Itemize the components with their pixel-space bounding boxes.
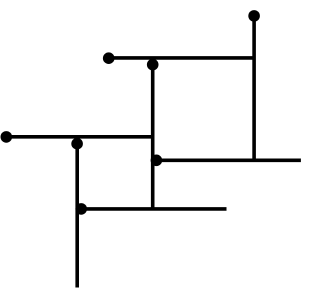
node D4 (dot at left end of H2) — [1, 131, 13, 143]
node D5 (dot on V3 below H2) — [71, 138, 83, 150]
node D3 (dot on V2 below H1) — [147, 59, 159, 71]
wire V2 (middle vertical from H1 down to H4) — [151, 58, 155, 209]
node D1 (dot at top of V1) — [248, 10, 260, 22]
wire H2 (middle horizontal from left dot D4 right to V2) — [6, 135, 152, 139]
node D7 (dot at left end of H4) — [75, 203, 87, 215]
wire H3 (horizontal from V2 right to near right edge) — [153, 159, 301, 163]
wire V1 (vertical from top-right dot down to line H3) — [252, 16, 256, 160]
wire V3 (left vertical from H2 down to bottom) — [75, 137, 79, 288]
node D6 (dot at left end of H3) — [151, 155, 163, 167]
wire H1 (upper horizontal from dot D2 right to V1) — [109, 56, 254, 60]
wire H4 (lower horizontal from V3 right) — [77, 207, 226, 211]
node D2 (dot at left end of H1) — [103, 52, 115, 64]
